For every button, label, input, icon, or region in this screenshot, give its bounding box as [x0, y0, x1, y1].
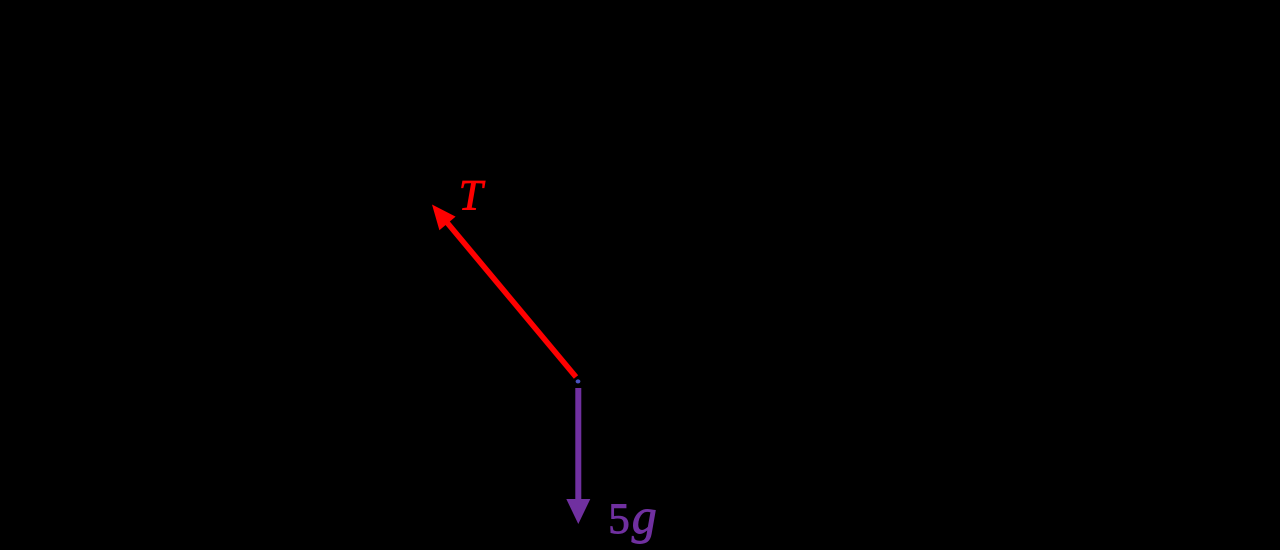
- svg-text:5g: 5g: [608, 488, 657, 544]
- svg-text:T: T: [459, 173, 486, 220]
- force arrow T (tension, red): [432, 205, 576, 378]
- label 5g: [608, 488, 657, 544]
- force arrow 5g (weight, purple): [566, 388, 590, 524]
- label T: [459, 173, 486, 220]
- node: point mass (blue dot): [576, 379, 581, 383]
